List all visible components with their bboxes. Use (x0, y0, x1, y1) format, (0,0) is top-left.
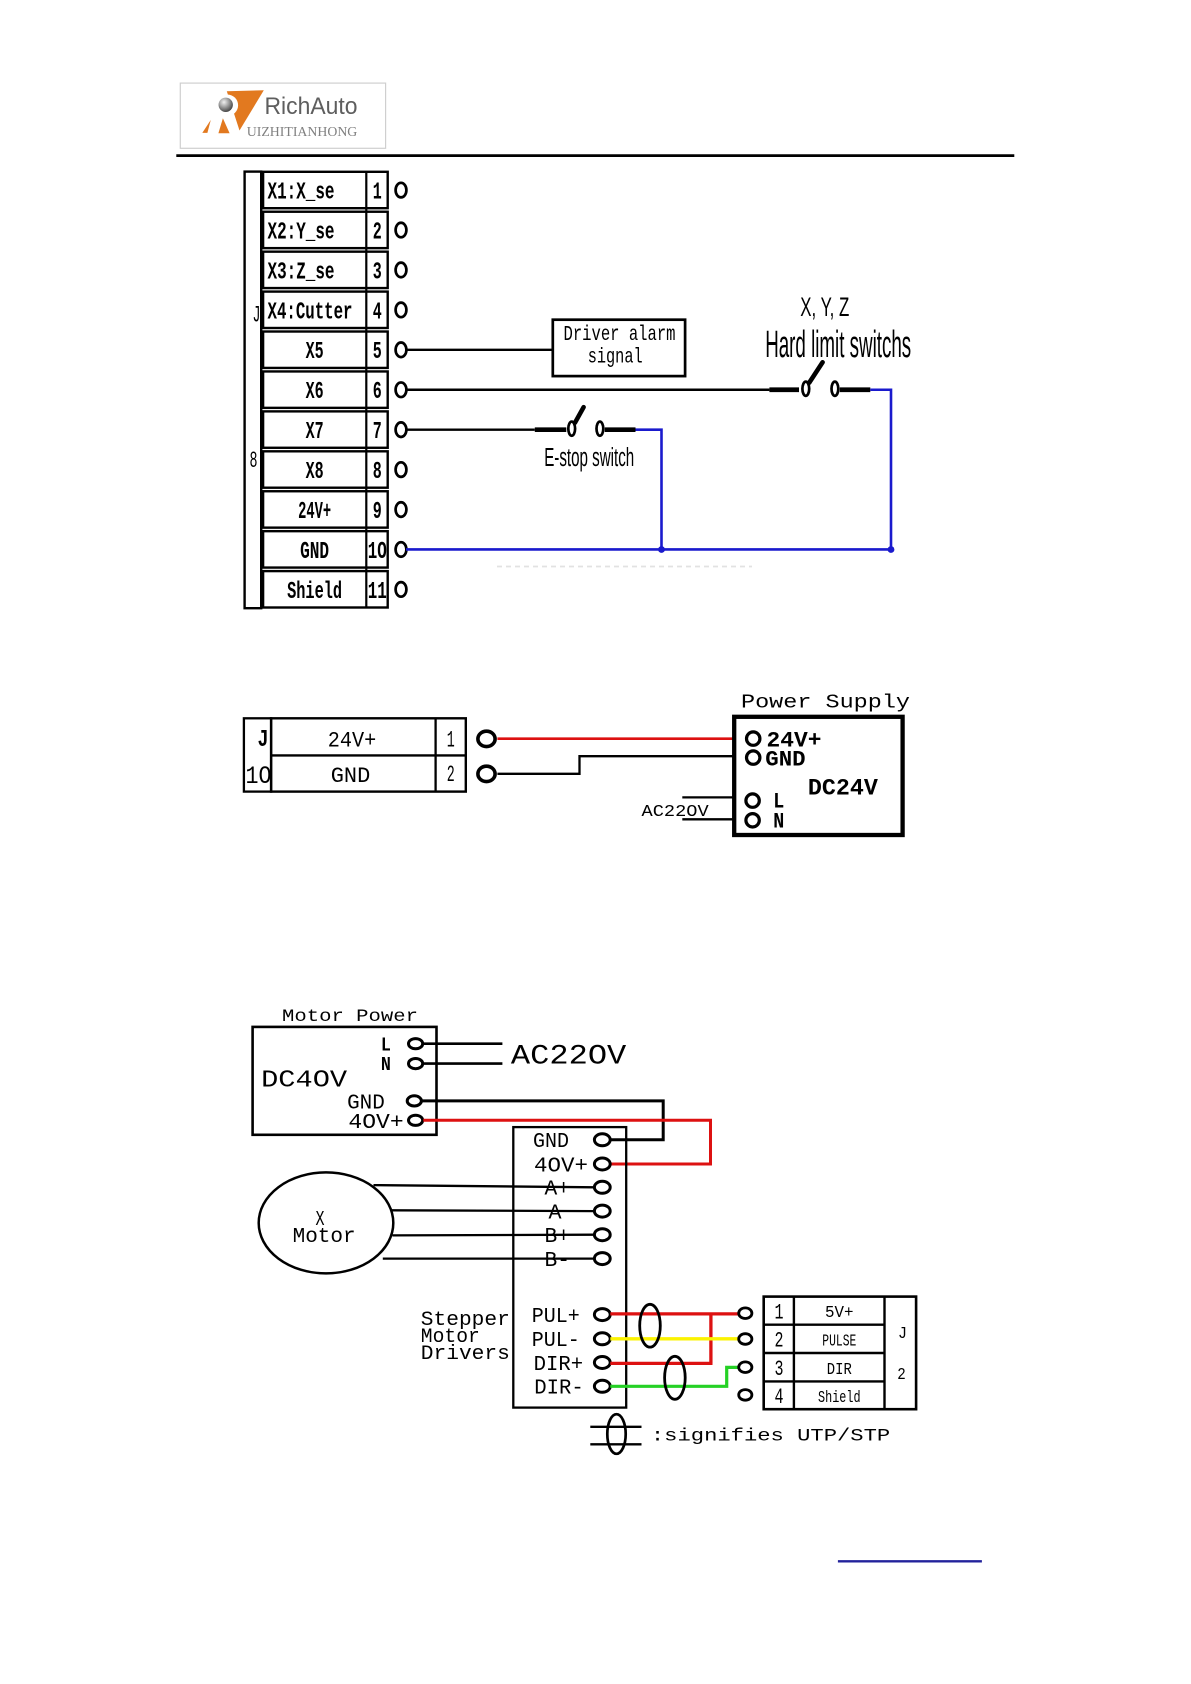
svg-text:signal: signal (588, 347, 643, 370)
svg-text:X7: X7 (306, 419, 324, 446)
svg-text:X4:Cutter: X4:Cutter (268, 299, 353, 326)
svg-text:1: 1 (775, 1300, 784, 1325)
svg-text:GND: GND (300, 539, 329, 566)
svg-text:6: 6 (373, 379, 382, 406)
svg-text:DIR-: DIR- (534, 1378, 584, 1401)
svg-text:RichAuto: RichAuto (265, 93, 358, 120)
svg-text:GND: GND (331, 764, 371, 789)
svg-text:1: 1 (373, 180, 382, 207)
svg-text:GND: GND (765, 748, 805, 773)
svg-text:Shield: Shield (287, 579, 342, 606)
svg-text:L: L (381, 1034, 391, 1056)
svg-text:PUL-: PUL- (532, 1330, 580, 1353)
svg-text:11: 11 (368, 579, 387, 606)
svg-text:X2:Y_se: X2:Y_se (268, 219, 335, 246)
svg-text:N: N (773, 809, 784, 834)
svg-text:J: J (253, 303, 261, 329)
svg-text:4OV+: 4OV+ (348, 1112, 403, 1135)
svg-text:DC4OV: DC4OV (261, 1068, 348, 1095)
svg-text:2: 2 (897, 1366, 906, 1385)
svg-text:X1:X_se: X1:X_se (268, 180, 335, 207)
svg-text:5: 5 (373, 339, 382, 366)
svg-text:1: 1 (447, 727, 455, 753)
svg-text:DIR: DIR (827, 1361, 852, 1380)
svg-text:3: 3 (373, 259, 382, 286)
svg-text:8: 8 (373, 459, 382, 486)
svg-text:8: 8 (250, 448, 258, 474)
svg-text:Drivers: Drivers (421, 1343, 510, 1366)
svg-text:3: 3 (775, 1357, 784, 1382)
svg-text:E-stop switch: E-stop switch (544, 444, 634, 472)
svg-text:Driver alarm: Driver alarm (564, 324, 676, 347)
svg-text:J: J (258, 727, 269, 754)
svg-text:1O: 1O (368, 539, 387, 566)
svg-text:UIZHITIANHONG: UIZHITIANHONG (247, 124, 358, 139)
svg-text:5V+: 5V+ (825, 1304, 854, 1323)
svg-text:N: N (381, 1054, 391, 1076)
svg-text:GND: GND (533, 1131, 569, 1154)
svg-text:Power Supply: Power Supply (741, 692, 910, 714)
svg-text:2: 2 (373, 219, 382, 246)
svg-text:DIR+: DIR+ (534, 1354, 584, 1377)
svg-text:DC24V: DC24V (808, 775, 878, 801)
svg-text:AC22OV: AC22OV (511, 1042, 627, 1073)
svg-text:Shield: Shield (818, 1389, 861, 1408)
svg-text:4: 4 (373, 299, 382, 326)
svg-text::signifies UTP/STP: :signifies UTP/STP (651, 1427, 890, 1447)
svg-text:B+: B+ (545, 1226, 571, 1249)
svg-text:Motor: Motor (293, 1226, 356, 1249)
svg-text:Hard limit switchs: Hard limit switchs (765, 324, 911, 366)
svg-text:PUL+: PUL+ (532, 1306, 580, 1329)
svg-text:2: 2 (775, 1329, 784, 1354)
svg-text:X8: X8 (306, 459, 324, 486)
svg-text:Motor Power: Motor Power (282, 1007, 418, 1027)
svg-text:4: 4 (775, 1385, 784, 1410)
svg-text:B-: B- (545, 1250, 571, 1273)
svg-text:1O: 1O (246, 762, 272, 791)
svg-text:2: 2 (447, 762, 455, 788)
svg-text:X6: X6 (306, 379, 324, 406)
svg-text:X3:Z_se: X3:Z_se (268, 259, 335, 286)
svg-text:X, Y, Z: X, Y, Z (800, 292, 849, 322)
svg-text:9: 9 (373, 499, 382, 526)
svg-text:7: 7 (373, 419, 382, 446)
svg-text:24V+: 24V+ (328, 729, 377, 754)
svg-text:J: J (898, 1325, 907, 1344)
svg-text:4OV+: 4OV+ (534, 1155, 588, 1178)
svg-text:24V+: 24V+ (298, 499, 331, 526)
svg-text:PULSE: PULSE (822, 1332, 856, 1351)
svg-text:A: A (549, 1203, 562, 1226)
svg-text:A+: A+ (545, 1179, 571, 1202)
svg-text:X5: X5 (306, 339, 324, 366)
